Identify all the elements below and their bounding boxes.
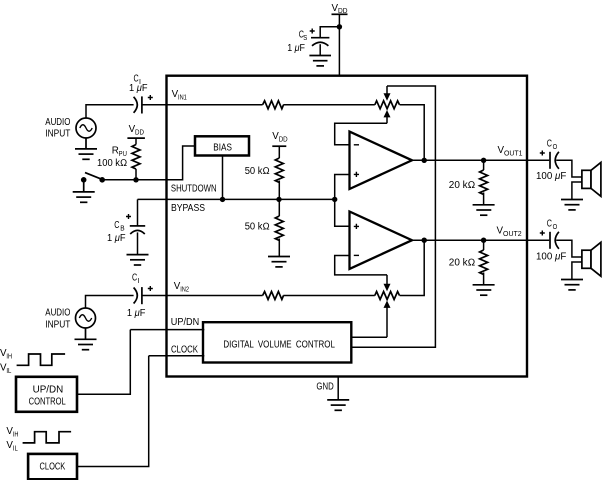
op-amp U2 — [350, 212, 413, 269]
waveform CLOCK square wave — [23, 432, 72, 443]
svg-text:AUDIO: AUDIO — [45, 307, 70, 318]
potentiometer pot1 — [375, 101, 400, 109]
svg-text:IL: IL — [13, 446, 18, 453]
wire GND stub — [337, 377, 339, 400]
svg-text:50 kΩ: 50 kΩ — [245, 222, 270, 233]
wire VDD down to box — [338, 14, 340, 75]
ground below switch — [73, 182, 95, 202]
resistor input R1 — [263, 101, 284, 109]
wire U1 output — [412, 159, 527, 161]
wire VOUT2 to cap — [527, 239, 549, 241]
ground below speaker 2 — [561, 280, 583, 290]
wire cap2 to speaker2 — [556, 240, 582, 257]
svg-text:O: O — [553, 224, 558, 231]
resistor 20k load 2 — [449, 238, 488, 285]
capacitor CO channel 2 — [536, 219, 566, 263]
IC boundary box — [167, 76, 528, 377]
svg-text:C: C — [132, 273, 137, 284]
ground below source 1 — [75, 138, 97, 159]
svg-text:100 μF: 100 μF — [536, 252, 566, 263]
audio input source 2 — [45, 307, 95, 330]
node bias/bypass — [220, 197, 225, 202]
svg-text:20 kΩ: 20 kΩ — [449, 180, 476, 191]
svg-text:DD: DD — [135, 130, 144, 137]
svg-text:DIGITAL VOLUME CONTROL: DIGITAL VOLUME CONTROL — [223, 340, 335, 351]
svg-text:IN1: IN1 — [178, 95, 187, 102]
wire source1 to cap — [86, 105, 134, 118]
svg-text:1 μF: 1 μF — [127, 308, 146, 319]
ground below GND — [327, 400, 349, 410]
wire CLOCK line — [149, 355, 205, 357]
capacitor CI channel 2 — [127, 273, 153, 320]
block BIAS — [195, 136, 249, 155]
svg-text:BYPASS: BYPASS — [171, 203, 205, 214]
svg-text:UP/DN: UP/DN — [33, 385, 64, 396]
wire source2 to cap — [86, 296, 134, 309]
svg-text:CONTROL: CONTROL — [29, 397, 67, 408]
wire R1 to pot1 — [283, 104, 375, 106]
label VIH waveform 1 — [0, 348, 12, 361]
ground below CB — [127, 255, 149, 265]
pot1 control arrow down from DVC — [384, 86, 391, 101]
pot2 wiper arrow down — [384, 275, 391, 291]
svg-text:1 μF: 1 μF — [287, 43, 305, 54]
ground below source 2 — [75, 328, 97, 350]
node U1 output feedback — [422, 158, 427, 163]
node U2 output feedback — [422, 238, 427, 243]
label VIL waveform 1 — [0, 363, 11, 376]
wire pot2 control to DVC — [352, 336, 387, 338]
svg-text:100 μF: 100 μF — [536, 171, 566, 182]
svg-text:AUDIO: AUDIO — [45, 117, 70, 128]
block UP/DN CONTROL — [16, 377, 77, 412]
svg-text:GND: GND — [316, 382, 333, 393]
resistor input R2 — [263, 292, 284, 300]
svg-text:20 kΩ: 20 kΩ — [449, 258, 476, 269]
wire U2 plus input to bypass node — [335, 199, 350, 226]
wire BIAS to bypass line — [222, 156, 224, 200]
wire U2 output — [412, 239, 527, 241]
waveform UP/DN square wave — [17, 354, 66, 365]
ground below 50k lower — [268, 257, 290, 267]
svg-text:C: C — [547, 139, 552, 150]
svg-text:INPUT: INPUT — [45, 129, 70, 140]
block CLOCK — [28, 454, 77, 479]
node 50k/bypass — [276, 197, 281, 202]
pin VIN2 — [174, 281, 189, 294]
wire BYPASS line — [138, 198, 335, 200]
wire VOUT1 to cap — [527, 159, 549, 161]
potentiometer pot2 — [375, 292, 400, 300]
wire UP/DN control to DVC — [77, 330, 130, 395]
svg-text:1 μF: 1 μF — [107, 233, 126, 244]
resistor 20k load 1 — [449, 158, 488, 205]
wire U2 minus input to pot2 wiper — [335, 256, 387, 275]
ground below 20k load 2 — [473, 285, 495, 295]
svg-text:50 kΩ: 50 kΩ — [245, 166, 270, 177]
block DIGITAL VOLUME CONTROL — [203, 322, 351, 362]
node opamp+/bypass — [332, 197, 337, 202]
svg-text:OUT2: OUT2 — [503, 231, 522, 238]
wire speaker1 to ground — [572, 182, 582, 200]
resistor 50k lower — [245, 199, 284, 256]
svg-text:UP/DN: UP/DN — [171, 317, 199, 328]
wire pot1 to feedback — [400, 105, 425, 161]
svg-text:IH: IH — [13, 432, 19, 439]
svg-text:SHUTDOWN: SHUTDOWN — [171, 183, 217, 194]
svg-text:CLOCK: CLOCK — [40, 462, 66, 473]
svg-text:IL: IL — [6, 368, 11, 375]
pot2 control arrow up from DVC — [384, 301, 391, 338]
wire VIN2 line — [142, 295, 263, 297]
label VIH waveform 2 — [6, 426, 18, 439]
svg-text:CLOCK: CLOCK — [171, 345, 198, 356]
svg-text:C: C — [547, 219, 552, 230]
switch S1 — [81, 173, 105, 183]
wire CLOCK box to DVC — [77, 356, 149, 467]
audio input source 1 — [45, 117, 96, 140]
wire pot2 to feedback — [400, 240, 425, 295]
capacitor CS 1uF — [287, 29, 329, 56]
wire junction to CS — [320, 27, 339, 38]
resistor 50k upper — [245, 131, 288, 199]
svg-text:IH: IH — [6, 354, 12, 361]
net VDD top — [332, 3, 348, 15]
wire cap1 to speaker1 — [556, 160, 582, 177]
pot1 wiper arrow up from minus input — [384, 110, 391, 123]
wire U1 minus input to pot1 wiper — [335, 123, 387, 145]
capacitor CO channel 1 — [536, 139, 566, 183]
wire speaker2 to ground — [572, 262, 582, 280]
wire UP/DN line — [130, 329, 204, 331]
svg-text:PU: PU — [119, 151, 127, 158]
svg-text:B: B — [120, 225, 125, 232]
capacitor CI channel 1 — [129, 74, 153, 114]
svg-text:I: I — [138, 278, 140, 285]
pin VOUT2 — [497, 225, 522, 238]
speaker LS1 — [582, 162, 601, 196]
wire VIN1 line — [142, 104, 263, 106]
op-amp U1 — [350, 132, 413, 189]
ground below speaker 1 — [561, 200, 583, 210]
svg-text:O: O — [553, 144, 558, 151]
speaker LS2 — [582, 242, 601, 276]
node RPU/shutdown junction — [133, 177, 138, 182]
resistor RPU pull-up — [97, 124, 145, 180]
wire U1 plus input to bypass node — [335, 175, 350, 200]
ground below CS — [309, 56, 331, 66]
wire pot1 control to DVC — [352, 86, 435, 347]
label VIL waveform 2 — [6, 440, 17, 453]
svg-text:INPUT: INPUT — [45, 319, 70, 330]
svg-text:S: S — [303, 35, 307, 42]
pin VIN1 — [172, 89, 187, 102]
svg-text:100 kΩ: 100 kΩ — [97, 158, 127, 169]
capacitor CB 1uF — [107, 199, 145, 254]
node VDD/CS junction — [337, 24, 342, 29]
svg-text:BIAS: BIAS — [213, 142, 232, 153]
wire R2 to pot2 — [283, 295, 375, 297]
svg-text:OUT1: OUT1 — [504, 151, 523, 158]
svg-text:IN2: IN2 — [180, 287, 189, 294]
svg-text:C: C — [114, 220, 119, 231]
svg-text:1 μF: 1 μF — [129, 83, 148, 94]
ground below 20k load 1 — [473, 205, 495, 215]
pin VOUT1 — [498, 145, 523, 158]
svg-text:DD: DD — [279, 137, 288, 144]
wire SHUTDOWN line — [102, 146, 195, 180]
